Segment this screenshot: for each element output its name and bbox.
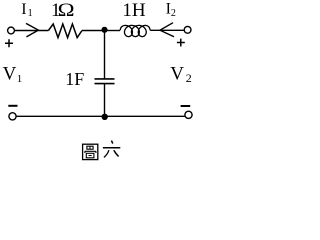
terminal port2 bottom	[185, 111, 192, 118]
node B bottom junction	[102, 114, 108, 120]
node A top junction	[101, 27, 107, 33]
current arrow I2	[160, 23, 174, 37]
terminal port2 top	[184, 26, 191, 33]
wire node to inductor	[105, 30, 121, 32]
capacitor C1 1F	[95, 79, 115, 84]
plus sign port2	[177, 39, 185, 47]
current arrow I1	[26, 23, 38, 37]
svg-text:V: V	[3, 64, 17, 85]
svg-text:V: V	[170, 63, 184, 84]
wire capacitor bottom	[104, 84, 106, 117]
svg-text:1: 1	[28, 8, 33, 19]
wire resistor to node	[82, 30, 105, 32]
caption glyph liu (six)	[103, 141, 120, 158]
svg-text:I: I	[21, 1, 26, 18]
wire capacitor top	[104, 31, 106, 79]
svg-text:2: 2	[186, 71, 192, 85]
svg-text:Ω: Ω	[58, 0, 75, 20]
wire top-left	[14, 30, 48, 32]
wire inductor to port2	[150, 29, 184, 31]
svg-text:2: 2	[171, 8, 176, 19]
svg-text:1H: 1H	[122, 0, 145, 21]
caption glyph tu (figure)	[83, 144, 98, 159]
inductor L1 1H	[120, 25, 150, 36]
terminal port1 bottom	[9, 113, 16, 120]
bottom wire	[16, 115, 185, 117]
svg-text:1F: 1F	[65, 69, 84, 89]
svg-text:1: 1	[17, 73, 23, 85]
terminal port1 top	[8, 27, 15, 34]
plus sign port1	[5, 39, 13, 47]
minus sign port2	[181, 105, 191, 107]
resistor R1 1ohm	[48, 24, 82, 38]
minus sign port1	[8, 105, 17, 107]
